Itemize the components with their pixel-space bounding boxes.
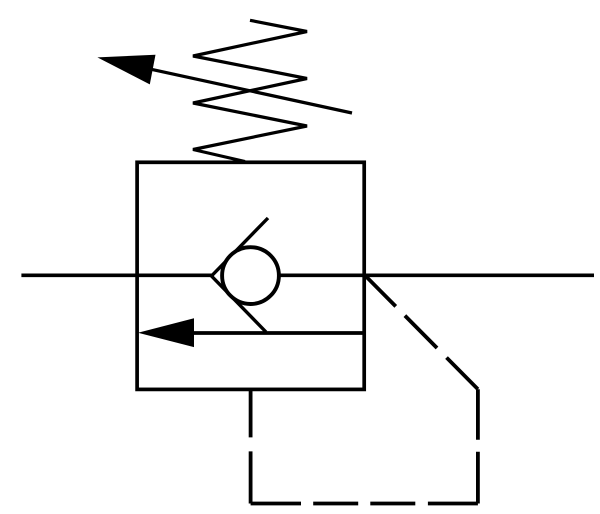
- pilot line right vertical: [476, 389, 480, 503]
- check valve seat: [212, 218, 269, 332]
- main flow line right: [279, 273, 594, 277]
- reverse flow arrow shaft: [190, 331, 364, 335]
- adjustment arrow shaft: [130, 65, 352, 113]
- main flow line left: [21, 273, 214, 277]
- spring: [193, 20, 307, 161]
- reverse flow arrowhead: [138, 318, 194, 347]
- check valve ball: [222, 247, 279, 304]
- pilot line bottom horizontal: [251, 502, 478, 506]
- adjustment arrowhead: [97, 55, 155, 85]
- pilot line left vertical: [249, 389, 253, 503]
- valve body box: [137, 162, 364, 389]
- pilot line diagonal: [364, 275, 478, 389]
